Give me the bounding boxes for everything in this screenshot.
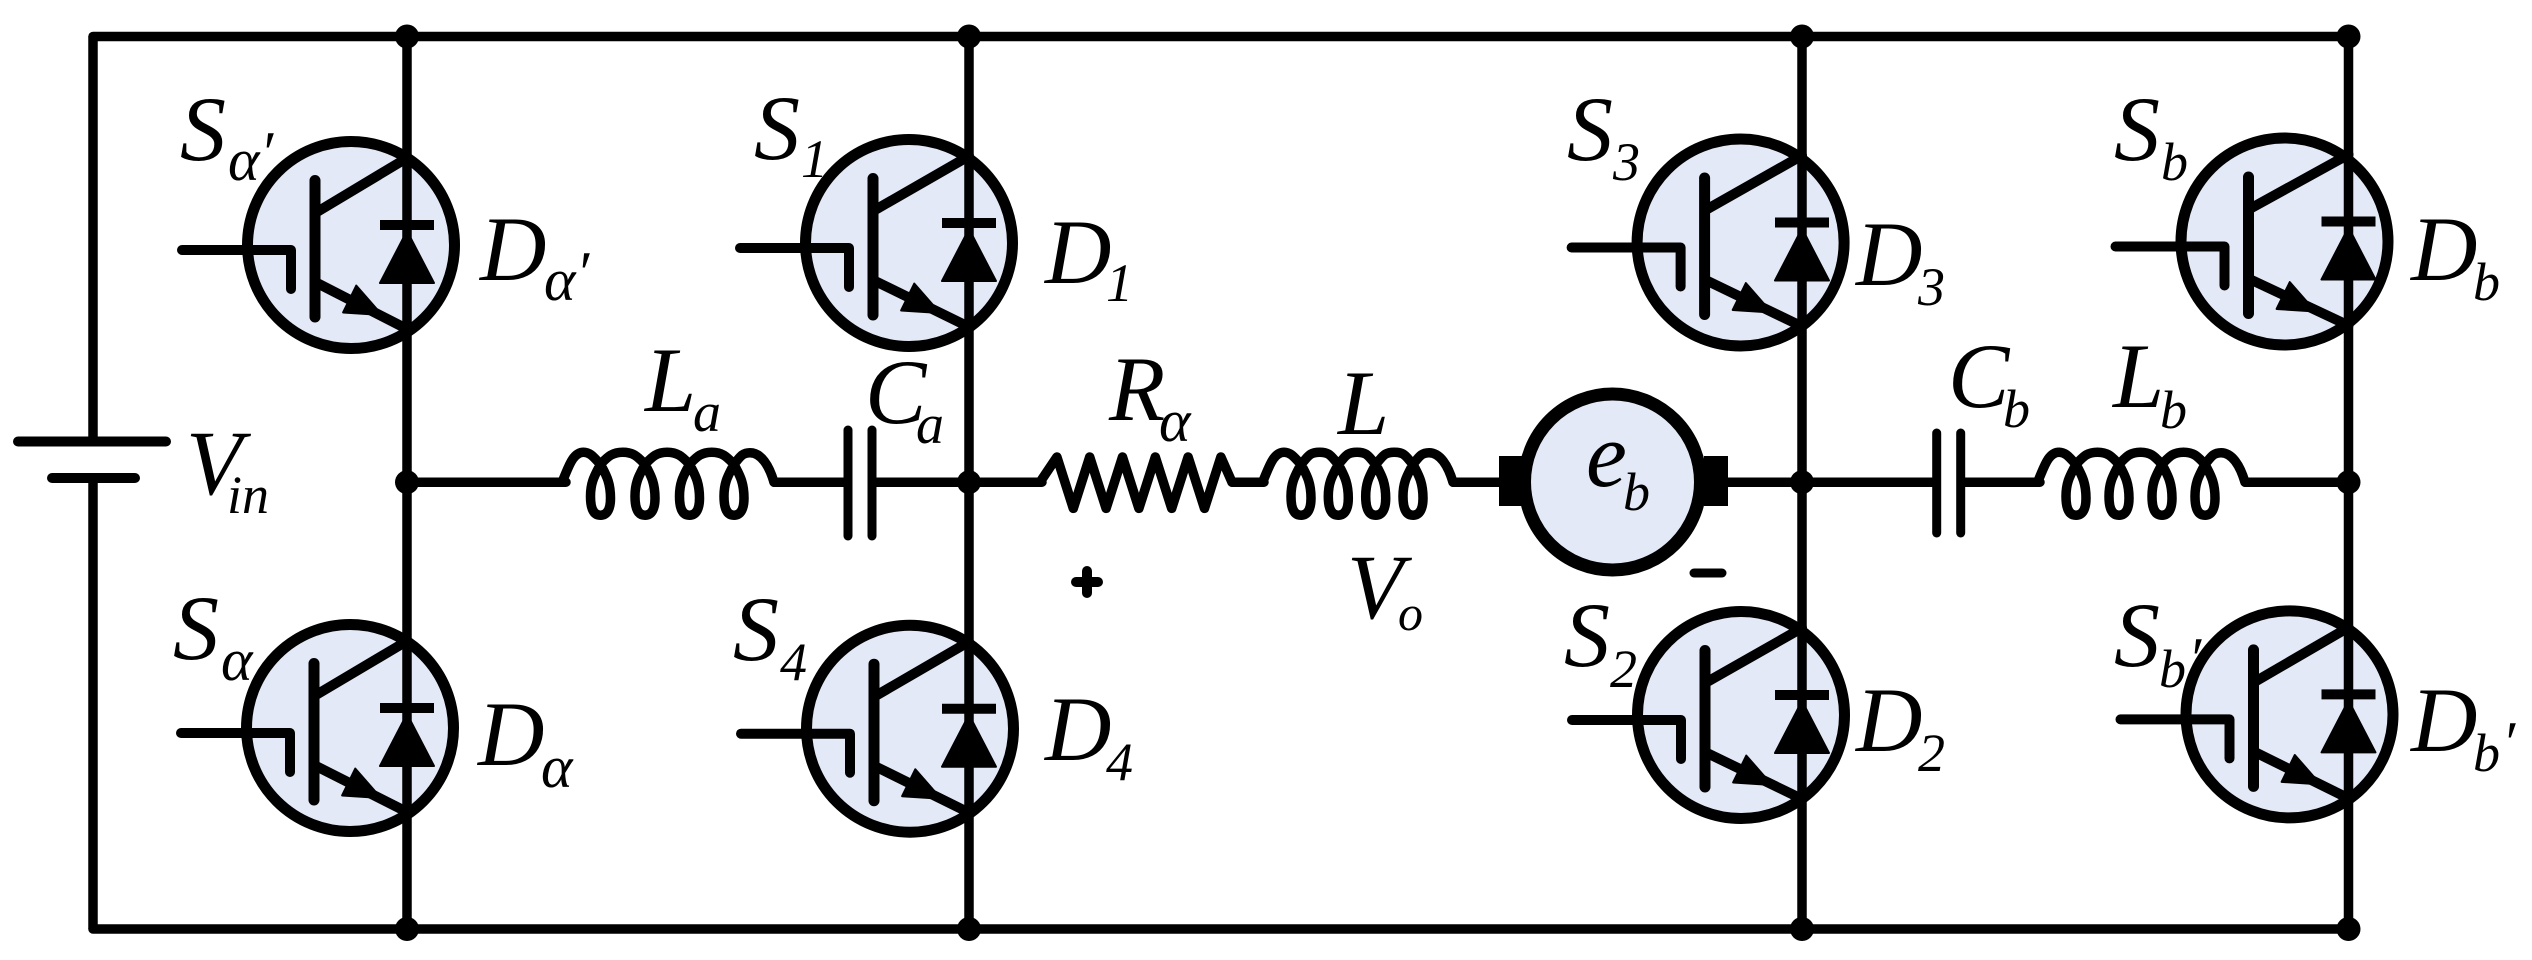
svg-text:α: α: [221, 627, 254, 693]
svg-text:L: L: [2111, 325, 2164, 427]
svg-text:2: 2: [1918, 723, 1945, 783]
svg-text:α: α: [541, 734, 574, 800]
svg-text:D: D: [1043, 678, 1111, 780]
svg-text:′: ′: [260, 120, 274, 186]
svg-text:b: b: [2160, 380, 2187, 440]
svg-text:L: L: [1336, 352, 1389, 454]
svg-text:S: S: [733, 578, 779, 680]
svg-text:b: b: [2161, 132, 2188, 192]
svg-text:D: D: [476, 683, 544, 785]
svg-text:S: S: [2114, 78, 2160, 180]
svg-text:D: D: [1043, 201, 1111, 303]
svg-text:′: ′: [2502, 710, 2516, 776]
svg-text:1: 1: [1106, 253, 1133, 313]
svg-text:S: S: [754, 77, 800, 179]
svg-text:a: a: [916, 394, 944, 456]
svg-text:D: D: [1854, 203, 1922, 305]
svg-text:b: b: [2473, 723, 2500, 783]
svg-text:b: b: [2159, 639, 2186, 699]
svg-text:S: S: [173, 577, 219, 679]
svg-text:b: b: [2003, 379, 2030, 439]
svg-text:′: ′: [2188, 626, 2202, 692]
svg-text:a: a: [693, 382, 721, 444]
svg-text:S: S: [1567, 78, 1613, 180]
svg-text:i: i: [227, 465, 242, 525]
svg-text:α: α: [544, 247, 577, 313]
svg-text:S: S: [180, 78, 226, 180]
svg-text:2: 2: [1610, 639, 1637, 699]
svg-text:D: D: [2409, 669, 2477, 771]
svg-text:S: S: [1564, 584, 1610, 686]
svg-text:S: S: [2114, 584, 2160, 686]
svg-text:α: α: [1159, 388, 1192, 454]
svg-text:3: 3: [1917, 257, 1945, 317]
svg-text:D: D: [2409, 198, 2477, 300]
svg-text:D: D: [1854, 669, 1922, 771]
svg-text:4: 4: [1106, 732, 1133, 792]
svg-text:L: L: [643, 329, 696, 431]
svg-text:3: 3: [1612, 132, 1640, 192]
svg-text:α: α: [228, 127, 261, 193]
svg-text:4: 4: [780, 632, 807, 692]
svg-text:D: D: [478, 198, 546, 300]
svg-text:b: b: [1623, 462, 1650, 522]
svg-text:n: n: [242, 465, 269, 525]
svg-text:b: b: [2473, 252, 2500, 312]
svg-text:o: o: [1398, 585, 1423, 641]
svg-text:e: e: [1586, 404, 1627, 506]
svg-text:1: 1: [801, 129, 828, 189]
svg-text:′: ′: [576, 240, 590, 306]
svg-text:C: C: [1948, 325, 2011, 427]
svg-text:R: R: [1108, 338, 1165, 440]
